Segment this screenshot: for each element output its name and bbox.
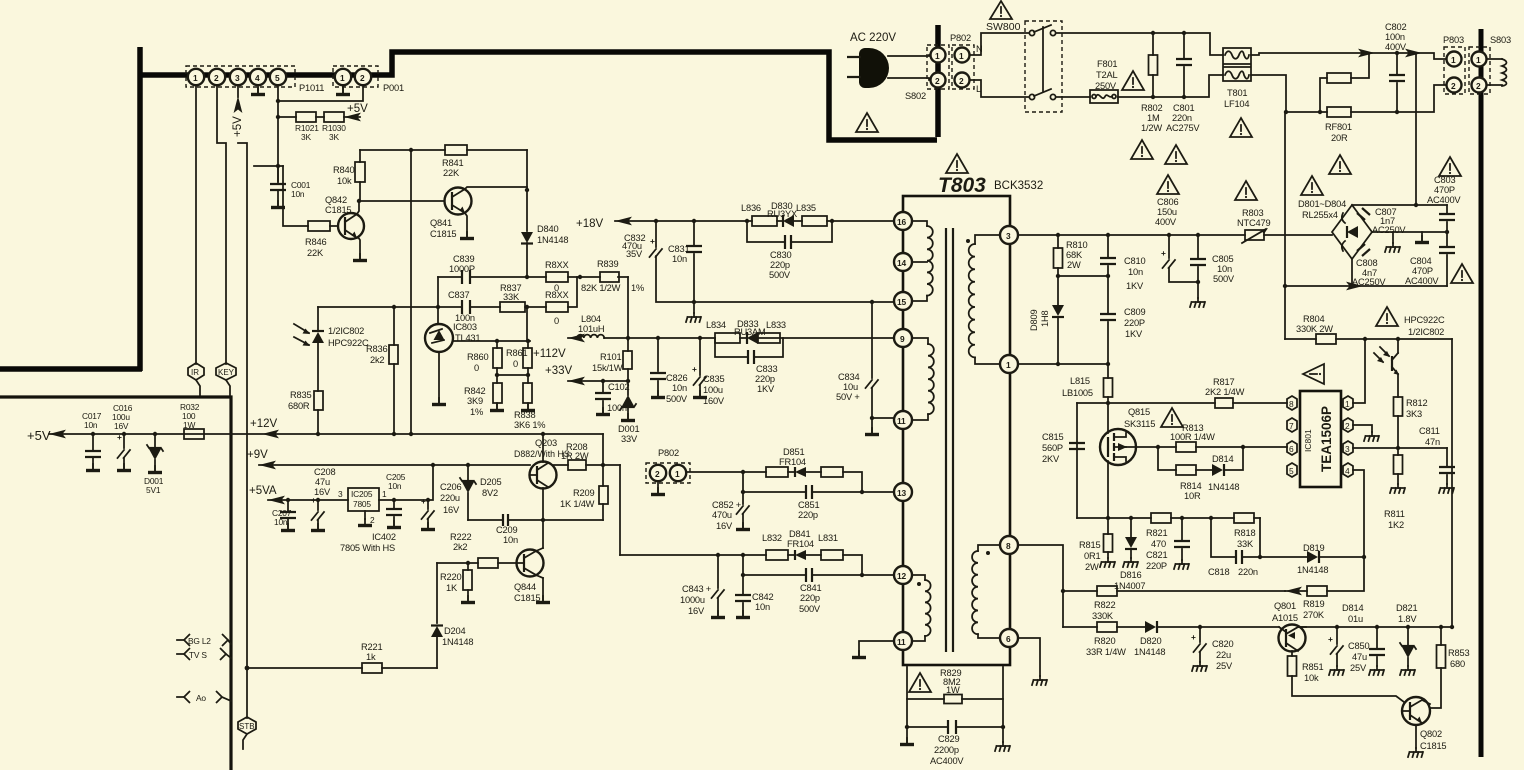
capacitor C810 10n 1KV <box>1100 235 1145 291</box>
page border thick vertical left <box>137 47 143 371</box>
+18V row 221 <box>576 217 894 230</box>
svg-text:IC402: IC402 <box>372 532 396 542</box>
warning triangle near R829 <box>909 673 931 692</box>
svg-text:1N4007: 1N4007 <box>1114 581 1145 591</box>
svg-text:1: 1 <box>1006 360 1011 370</box>
net tag TV S <box>177 648 231 660</box>
fusible resistor RF801 upper <box>1320 53 1369 112</box>
resistor R222 2k2 <box>437 532 517 568</box>
warning triangle above T803 <box>946 154 968 173</box>
T803 pin 3 <box>1000 226 1018 244</box>
svg-text:20R: 20R <box>1331 133 1348 143</box>
capacitor C811 47n <box>1419 426 1455 493</box>
resistor R8XX 0 (upper) <box>545 260 569 293</box>
svg-text:1000u: 1000u <box>680 595 705 605</box>
wire P802 pin2 to SW800 <box>970 80 1029 97</box>
capacitor C017 10n <box>82 411 102 471</box>
connector P1011 <box>186 66 324 93</box>
IC801 pin2 ground <box>1353 425 1379 441</box>
svg-text:2KV: 2KV <box>1042 454 1060 464</box>
diode D840 1N4148 <box>521 224 568 277</box>
+5V / +12V rail row 434 <box>27 428 603 443</box>
T803 pin 11 <box>894 411 912 429</box>
svg-text:330K 2W: 330K 2W <box>1296 324 1333 334</box>
resistor R209 1K 1/4W <box>560 465 608 520</box>
svg-text:IC205: IC205 <box>351 489 373 499</box>
svg-text:R822: R822 <box>1094 600 1115 610</box>
svg-text:6: 6 <box>1289 444 1294 454</box>
svg-text:8: 8 <box>1006 541 1011 551</box>
svg-text:SW800: SW800 <box>986 21 1021 33</box>
fuse F801 T2AL 250V <box>1090 59 1118 103</box>
+12V arrow label <box>250 418 279 438</box>
svg-text:1K2: 1K2 <box>1388 520 1404 530</box>
svg-text:10n: 10n <box>672 383 687 393</box>
diode D833 RU3AM <box>734 319 766 344</box>
svg-text:2K2 1/4W: 2K2 1/4W <box>1205 387 1245 397</box>
inductor L833 <box>758 320 786 343</box>
svg-text:+: + <box>1161 248 1166 258</box>
svg-text:1: 1 <box>340 73 345 83</box>
svg-text:D814: D814 <box>1212 454 1233 464</box>
svg-text:680R: 680R <box>288 401 310 411</box>
svg-text:2: 2 <box>1345 421 1350 431</box>
svg-text:2W: 2W <box>1067 260 1081 270</box>
svg-text:2k2: 2k2 <box>453 542 467 552</box>
capacitor C208 47u 16V <box>311 467 335 531</box>
svg-text:HPC922C: HPC922C <box>328 338 369 348</box>
resistor R819 270K <box>1285 557 1364 620</box>
svg-text:16V: 16V <box>443 505 460 515</box>
wire R839 down to 112V row <box>627 277 629 340</box>
svg-text:22K: 22K <box>307 248 324 258</box>
N L labels <box>976 44 983 94</box>
svg-text:1N4148: 1N4148 <box>537 235 568 245</box>
svg-text:5: 5 <box>1289 466 1294 476</box>
transformer T803 box <box>903 196 1010 665</box>
svg-text:R804: R804 <box>1303 314 1324 324</box>
svg-text:1.8V: 1.8V <box>1398 614 1417 624</box>
shunt reg IC803 TL431 <box>425 322 480 405</box>
svg-text:SK3115: SK3115 <box>1124 419 1155 429</box>
resistor R815 0R1 2W <box>1079 518 1115 572</box>
capacitor C821 220P <box>1146 518 1190 571</box>
bridge D801~D804 RL255x4 <box>1298 199 1372 259</box>
svg-text:1/2IC802: 1/2IC802 <box>328 326 364 336</box>
svg-text:C851: C851 <box>798 500 819 510</box>
svg-text:470u: 470u <box>712 510 732 520</box>
svg-text:KEY: KEY <box>218 368 235 377</box>
thick wire stub to P1011 <box>142 72 294 78</box>
HV rail row 235 <box>1018 233 1245 237</box>
svg-text:3K: 3K <box>329 132 339 142</box>
svg-text:+5V: +5V <box>27 428 51 443</box>
IC801 pin 8 <box>1287 396 1297 410</box>
warning triangle near Q815 <box>1161 408 1183 427</box>
zener D001 5V1 <box>144 434 164 495</box>
capacitor C826 10n 500V <box>650 338 688 404</box>
svg-text:1/2W: 1/2W <box>1141 123 1162 133</box>
T803 pin 6 <box>1000 629 1018 647</box>
svg-text:100n: 100n <box>1385 32 1405 42</box>
capacitor C831 10n <box>668 221 702 302</box>
svg-text:16: 16 <box>897 217 906 227</box>
svg-text:1W: 1W <box>183 420 195 430</box>
T803 pin 14 <box>894 253 912 271</box>
resistor R813 100R 1/4W <box>1170 423 1287 452</box>
svg-text:Ao: Ao <box>196 693 206 703</box>
opto transistor 1/2IC802 HPC922C <box>1374 315 1445 397</box>
Q842 collector wire <box>357 199 361 214</box>
svg-text:R209: R209 <box>573 488 594 498</box>
resistor R032 100 1W <box>180 402 204 439</box>
warning triangle above SW800 <box>990 1 1012 19</box>
svg-text:3K: 3K <box>301 132 311 142</box>
capacitor C834 10u 50V <box>836 302 894 435</box>
svg-text:10n: 10n <box>1128 267 1143 277</box>
svg-text:P803: P803 <box>1443 35 1464 45</box>
svg-text:1: 1 <box>959 51 964 61</box>
svg-text:400V: 400V <box>1385 42 1407 52</box>
inductor L832 <box>762 533 788 560</box>
svg-text:C826: C826 <box>666 373 687 383</box>
wire L row 97 to fuse <box>1056 96 1090 98</box>
regulator IC205 7805 <box>338 488 396 553</box>
svg-text:F801: F801 <box>1097 59 1117 69</box>
source row 518 <box>1077 516 1260 520</box>
svg-text:C837: C837 <box>448 290 469 300</box>
svg-text:220p: 220p <box>800 593 820 603</box>
capacitor C842 10n <box>735 575 773 618</box>
svg-text:C809: C809 <box>1124 307 1145 317</box>
svg-text:L815: L815 <box>1070 376 1090 386</box>
Q841 emitter ground <box>460 213 474 239</box>
svg-text:AC400V: AC400V <box>1427 195 1461 205</box>
svg-text:+: + <box>692 364 697 374</box>
net tag BG L2 <box>177 634 231 646</box>
svg-text:9: 9 <box>900 334 905 344</box>
svg-text:7: 7 <box>1289 421 1294 431</box>
svg-text:220n: 220n <box>1238 567 1258 577</box>
svg-text:1N4148: 1N4148 <box>442 637 473 647</box>
svg-text:R819: R819 <box>1303 599 1324 609</box>
svg-text:D819: D819 <box>1303 543 1324 553</box>
svg-text:C830: C830 <box>770 250 791 260</box>
svg-text:1: 1 <box>1476 55 1481 65</box>
wire pin13 <box>862 491 894 493</box>
capacitor C802 100n 400V <box>1385 22 1407 112</box>
svg-text:R810: R810 <box>1066 240 1087 250</box>
T803 pin 13 <box>894 483 912 501</box>
resistor R839 82K <box>581 259 644 293</box>
warning triangle above IC801 <box>1303 364 1324 384</box>
svg-text:1: 1 <box>1451 55 1456 65</box>
svg-text:C805: C805 <box>1212 254 1233 264</box>
svg-text:3: 3 <box>235 73 240 83</box>
svg-text:C834: C834 <box>838 372 859 382</box>
diode D204 1N4148 <box>431 563 473 668</box>
capacitor C001 10n <box>254 166 311 208</box>
svg-text:TEA1506P: TEA1506P <box>1319 406 1334 472</box>
svg-text:R860: R860 <box>467 352 488 362</box>
diode D830 RU3YX <box>767 201 797 227</box>
svg-text:8: 8 <box>1289 399 1294 409</box>
svg-text:R817: R817 <box>1213 377 1234 387</box>
svg-text:C831: C831 <box>668 244 689 254</box>
svg-text:500V: 500V <box>1213 274 1235 284</box>
resistor R810 68K 2W <box>1054 235 1088 276</box>
svg-text:250V: 250V <box>1095 81 1117 91</box>
svg-text:10u: 10u <box>843 382 858 392</box>
capacitor C839 1000P <box>449 254 475 284</box>
svg-text:RF801: RF801 <box>1325 122 1352 132</box>
svg-text:R815: R815 <box>1079 540 1100 550</box>
svg-text:R846: R846 <box>305 237 326 247</box>
connector S803 <box>1469 35 1511 94</box>
resistor R841 22K <box>442 145 527 178</box>
resistor R1030 3K <box>316 112 361 142</box>
svg-text:+5V: +5V <box>347 103 368 115</box>
IC801 pin 6 <box>1287 441 1297 455</box>
resistor R208 1R 2W <box>553 442 620 470</box>
svg-text:D820: D820 <box>1140 636 1161 646</box>
svg-text:3K6 1%: 3K6 1% <box>514 420 545 430</box>
svg-text:500V: 500V <box>799 604 821 614</box>
wire R841 row <box>360 148 445 152</box>
svg-text:R841: R841 <box>442 158 463 168</box>
svg-text:4: 4 <box>1345 466 1350 476</box>
svg-text:16V: 16V <box>114 421 129 431</box>
wire pin12 <box>862 574 894 576</box>
inductor L831 <box>818 533 843 560</box>
connector P803 <box>1443 35 1465 94</box>
capacitor C805 10n 500V <box>1190 235 1235 307</box>
wire Q841 base row <box>359 200 444 202</box>
svg-text:Q844: Q844 <box>514 582 536 592</box>
T803 pin 11 bottom <box>894 632 912 650</box>
svg-text:220p: 220p <box>798 510 818 520</box>
svg-text:150u: 150u <box>1157 207 1177 217</box>
capacitor C851 220p <box>741 472 864 520</box>
svg-text:TV S: TV S <box>189 650 207 660</box>
svg-text:+12V: +12V <box>250 418 278 430</box>
svg-text:D841: D841 <box>789 529 810 539</box>
svg-text:R811: R811 <box>1384 509 1405 519</box>
diode D816 1N4007 <box>1114 518 1145 591</box>
svg-text:0R1: 0R1 <box>1084 551 1100 561</box>
zener D205 8V2 <box>460 465 501 520</box>
line filter T801 <box>1223 48 1251 109</box>
svg-text:10n: 10n <box>274 517 288 527</box>
svg-text:C833: C833 <box>756 364 777 374</box>
svg-text:2: 2 <box>935 76 940 86</box>
svg-text:AC 220V: AC 220V <box>850 32 896 44</box>
capacitor C829 2200p AC400V <box>905 699 1005 766</box>
inductor L804 101uH <box>577 314 604 338</box>
warning triangle right of F801 <box>1122 71 1144 90</box>
capacitor C815 560P 2KV <box>1042 432 1085 464</box>
diode D851 FR104 <box>779 447 806 477</box>
svg-text:L831: L831 <box>818 533 838 543</box>
svg-text:220u: 220u <box>440 493 460 503</box>
svg-text:1N4148: 1N4148 <box>1208 482 1239 492</box>
wire row 627 right portion <box>1298 625 1454 629</box>
wire +5V to P001 pin2 <box>278 85 368 115</box>
capacitor C835 100u 160V <box>692 338 725 406</box>
svg-text:47n: 47n <box>1425 437 1440 447</box>
resistor R861 0 <box>506 341 532 375</box>
svg-text:C850: C850 <box>1348 641 1369 651</box>
wire T801 out bottom to row 112 <box>1251 75 1327 114</box>
wire pin1 row 365 <box>1018 362 1110 366</box>
opto collector node to row627 <box>1451 339 1453 627</box>
capacitor C850 47u 25V <box>1328 627 1369 675</box>
IC801 pin1 wire <box>1353 339 1365 403</box>
resistor R821 470 <box>1146 513 1171 549</box>
connector S802 <box>905 45 949 101</box>
svg-text:1K: 1K <box>446 583 458 593</box>
T803 pin 12 <box>894 566 912 584</box>
svg-text:10n: 10n <box>755 602 770 612</box>
svg-text:270K: 270K <box>1303 610 1325 620</box>
capacitor C205 10n <box>386 472 406 528</box>
degauss coil <box>1487 59 1507 86</box>
svg-text:D840: D840 <box>537 224 558 234</box>
svg-text:C1815: C1815 <box>1420 741 1446 751</box>
svg-text:R8XX: R8XX <box>545 290 569 300</box>
wire row 276 <box>1056 274 1110 278</box>
svg-text:10n: 10n <box>1217 264 1232 274</box>
warning triangle right of T801 <box>1230 118 1252 137</box>
wire P802 pin1 to SW800 <box>970 33 1029 55</box>
secondary winding 3-1 <box>966 235 1000 364</box>
svg-text:+: + <box>1328 634 1333 644</box>
wire to bridge top <box>1415 53 1417 205</box>
svg-text:3: 3 <box>1006 231 1011 241</box>
pin6 ground wire <box>1018 638 1047 685</box>
IC801 pin 2 <box>1343 418 1353 432</box>
svg-text:L832: L832 <box>762 533 782 543</box>
svg-text:1H8: 1H8 <box>1040 311 1050 327</box>
svg-text:11: 11 <box>897 416 906 426</box>
svg-text:3: 3 <box>338 489 343 499</box>
resistor R804 330K 2W <box>1285 314 1452 344</box>
resistor R802 1M 1/2W <box>1141 33 1162 133</box>
svg-text:+5VA: +5VA <box>249 485 277 497</box>
ground pin1 P001 <box>336 85 350 95</box>
wire T801 out top row 53 <box>1251 49 1446 59</box>
net tag Ao <box>177 691 231 703</box>
thick wire stub above S802 <box>935 25 941 90</box>
svg-text:D205: D205 <box>480 477 501 487</box>
svg-text:10n: 10n <box>503 535 518 545</box>
wire pin3 jog to STB line <box>238 143 247 718</box>
svg-text:1: 1 <box>382 489 387 499</box>
capacitor C806 150u 400V <box>1155 197 1198 282</box>
svg-text:1: 1 <box>675 469 680 479</box>
capacitor C832 470u 35V <box>622 221 694 302</box>
T803 pin 15 <box>894 292 912 310</box>
net tag IR <box>188 363 204 395</box>
svg-text:L834: L834 <box>706 320 726 330</box>
svg-text:R222: R222 <box>450 532 471 542</box>
svg-text:R839: R839 <box>597 259 618 269</box>
svg-text:NTC479: NTC479 <box>1237 218 1270 228</box>
diode D814 1N4148 <box>1208 447 1243 492</box>
resistor R840 10k <box>333 150 365 201</box>
transistor Q841 C1815 <box>430 188 472 240</box>
svg-text:220P: 220P <box>1146 561 1167 571</box>
transistor Q203 D882 <box>514 434 570 520</box>
svg-text:0: 0 <box>513 359 518 369</box>
svg-text:1: 1 <box>193 73 198 83</box>
svg-text:D814: D814 <box>1342 603 1363 613</box>
svg-text:2: 2 <box>655 469 660 479</box>
svg-text:500V: 500V <box>666 394 688 404</box>
Q841 collector wire to D840 node <box>465 150 529 231</box>
svg-text:STB: STB <box>239 722 255 731</box>
resistor R8XX 0 (lower) <box>545 290 569 326</box>
svg-text:AC250V: AC250V <box>1372 225 1406 235</box>
svg-text:IC803: IC803 <box>453 322 477 332</box>
svg-text:R101: R101 <box>600 352 621 362</box>
inductor L834 <box>706 320 740 343</box>
svg-text:C1815: C1815 <box>514 593 540 603</box>
svg-text:0: 0 <box>474 363 479 373</box>
svg-text:R820: R820 <box>1094 636 1115 646</box>
svg-text:S803: S803 <box>1490 35 1511 45</box>
+5VA row 500 <box>249 485 348 504</box>
resistor R1021 3K <box>278 112 319 142</box>
resistor R853 680 <box>1430 627 1469 708</box>
svg-text:C102: C102 <box>608 382 629 392</box>
svg-text:22K: 22K <box>443 168 460 178</box>
bridge bottom row 286 <box>1283 259 1447 290</box>
svg-text:15k/1W: 15k/1W <box>592 363 623 373</box>
svg-text:33K: 33K <box>1237 539 1254 549</box>
svg-text:100R 1/4W: 100R 1/4W <box>1170 432 1215 442</box>
svg-text:Q815: Q815 <box>1128 407 1150 417</box>
svg-text:T803: T803 <box>938 174 986 197</box>
thick wire below S802 to frame <box>935 88 941 137</box>
svg-text:C841: C841 <box>800 583 821 593</box>
vertical from row277 corner to TL431 <box>437 277 439 324</box>
wire row 302 to pin15 <box>694 300 894 304</box>
svg-text:C208: C208 <box>314 467 335 477</box>
capacitor C801 220n AC275V <box>1166 33 1200 133</box>
wire row 338 (9V winding feed) <box>533 334 585 360</box>
svg-text:10R: 10R <box>1184 491 1201 501</box>
svg-text:25V: 25V <box>1216 661 1233 671</box>
resistor R820 33R 1/4W <box>1063 622 1145 657</box>
thick wire P001 up and across top <box>377 52 937 140</box>
svg-text:C815: C815 <box>1042 432 1063 442</box>
capacitor C807 1n7 AC250V on bridge edge <box>1342 207 1407 235</box>
svg-text:Q203: Q203 <box>535 438 557 448</box>
svg-text:12: 12 <box>897 571 906 581</box>
svg-text:RU3YX: RU3YX <box>767 209 797 219</box>
wire row 555 from +9V corner <box>620 553 862 575</box>
svg-text:HPC922C: HPC922C <box>1404 315 1445 325</box>
capacitor C830 220p 500V <box>747 221 832 280</box>
svg-text:R836: R836 <box>366 344 387 354</box>
transistor Q844 C1815 <box>514 520 550 603</box>
svg-text:2: 2 <box>214 73 219 83</box>
svg-text:8V2: 8V2 <box>482 488 498 498</box>
wire pin1 to IR <box>195 85 197 364</box>
svg-text:50V +: 50V + <box>836 392 860 402</box>
svg-text:IR: IR <box>191 368 199 377</box>
